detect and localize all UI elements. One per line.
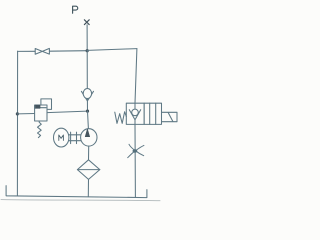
- node junction left rail / relief branch: [16, 112, 19, 115]
- wire relief branch left: [17, 113, 34, 115]
- relief valve pilot box (back): [41, 99, 52, 110]
- wire top rail left segment: [18, 50, 36, 52]
- coupling motor-pump: [69, 132, 81, 143]
- pump P1: [81, 129, 97, 146]
- check valve CV1: [81, 89, 93, 112]
- wire left rail: [16, 51, 18, 196]
- wire top rail middle segment: [49, 50, 87, 53]
- wire P down to top rail: [86, 25, 88, 51]
- node junction check valve / relief branch: [86, 110, 89, 113]
- wire valve to tank drop: [134, 124, 136, 197]
- solenoid coil of SV1: [162, 112, 178, 121]
- tank T1: [6, 186, 147, 198]
- wire right drop to valve: [135, 49, 137, 104]
- node P label: [73, 6, 78, 13]
- throttle valve TH1: [128, 144, 144, 157]
- filter F1: [77, 160, 99, 180]
- wire top rail right segment: [87, 49, 137, 51]
- spring W of solenoid valve: [115, 112, 127, 124]
- relief valve spring: [38, 121, 42, 138]
- solenoid valve SV1 left position box with pilot check: [126, 103, 144, 124]
- relief valve RV1 body: [35, 105, 47, 121]
- node junction top rail / P line: [86, 49, 89, 52]
- wire filter to tank: [87, 179, 89, 196]
- wire pump to filter: [88, 146, 90, 160]
- plug X on port P: [84, 20, 89, 25]
- wire relief branch right: [47, 111, 88, 113]
- wire P line above check valve: [86, 51, 88, 89]
- wire down to pump: [87, 111, 90, 129]
- motor M1: [54, 128, 69, 147]
- shut-off valve V1: [35, 48, 49, 54]
- solenoid valve SV1 right position box: [144, 103, 161, 124]
